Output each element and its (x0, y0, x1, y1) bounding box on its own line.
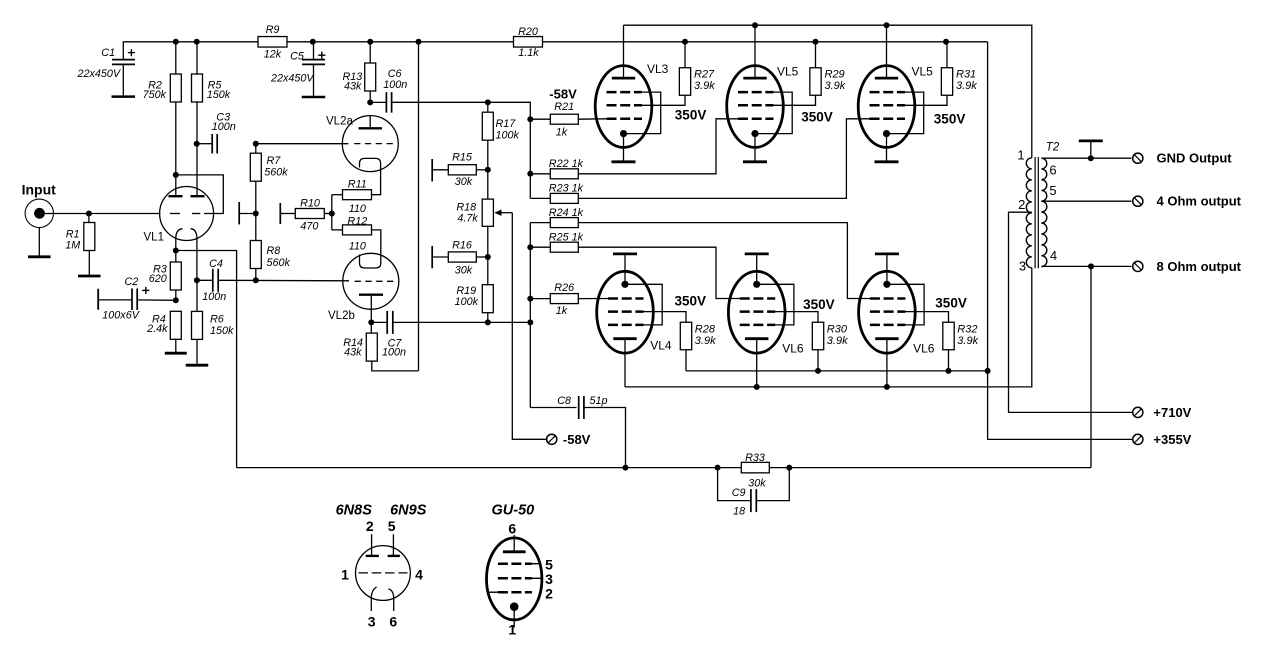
svg-text:C6: C6 (388, 68, 402, 80)
svg-text:150k: 150k (207, 89, 231, 101)
svg-text:R24 1k: R24 1k (549, 207, 584, 219)
svg-text:22x450V: 22x450V (77, 68, 122, 80)
svg-text:T2: T2 (1046, 141, 1060, 153)
svg-text:1: 1 (508, 622, 516, 638)
svg-text:22x450V: 22x450V (270, 73, 315, 85)
svg-text:VL6: VL6 (782, 342, 804, 356)
svg-text:+355V: +355V (1153, 432, 1191, 447)
svg-text:560k: 560k (267, 257, 291, 269)
svg-text:R29: R29 (825, 68, 845, 80)
svg-text:3: 3 (368, 614, 376, 630)
svg-text:4: 4 (1050, 248, 1057, 263)
svg-text:5: 5 (388, 518, 396, 534)
svg-text:R26: R26 (554, 282, 574, 294)
svg-text:3.9k: 3.9k (694, 80, 715, 92)
svg-text:R25 1k: R25 1k (549, 232, 584, 244)
svg-text:100k: 100k (496, 129, 520, 141)
svg-text:30k: 30k (455, 176, 473, 188)
svg-text:51p: 51p (590, 395, 608, 407)
svg-text:R7: R7 (267, 155, 282, 167)
svg-text:2: 2 (1018, 197, 1025, 212)
svg-text:350V: 350V (803, 297, 835, 312)
svg-text:R33: R33 (745, 452, 765, 464)
svg-text:2: 2 (545, 585, 553, 601)
svg-text:6: 6 (508, 521, 516, 537)
svg-text:6N9S: 6N9S (390, 502, 427, 518)
svg-text:620: 620 (149, 273, 167, 285)
svg-text:R18: R18 (456, 201, 476, 213)
svg-text:350V: 350V (675, 293, 707, 308)
svg-text:110: 110 (349, 241, 366, 253)
svg-text:R30: R30 (827, 324, 848, 336)
svg-text:6: 6 (389, 614, 397, 630)
svg-text:3: 3 (1019, 258, 1026, 273)
svg-text:C4: C4 (209, 258, 223, 270)
svg-text:C8: C8 (557, 395, 571, 407)
svg-text:43k: 43k (344, 81, 362, 93)
svg-text:R17: R17 (496, 118, 517, 130)
svg-text:R6: R6 (210, 314, 224, 326)
svg-text:-58V: -58V (563, 432, 591, 447)
svg-text:100n: 100n (382, 346, 406, 358)
svg-text:5: 5 (545, 556, 553, 572)
svg-text:1: 1 (1017, 148, 1024, 163)
svg-text:8 Ohm output: 8 Ohm output (1157, 259, 1242, 274)
svg-text:Input: Input (22, 182, 57, 198)
svg-text:VL1: VL1 (144, 232, 164, 244)
svg-text:6N8S: 6N8S (336, 502, 373, 518)
svg-text:VL6: VL6 (913, 342, 935, 356)
svg-text:5: 5 (1049, 183, 1056, 198)
svg-text:4: 4 (415, 567, 423, 583)
svg-text:GND Output: GND Output (1157, 151, 1233, 166)
svg-text:R28: R28 (695, 324, 716, 336)
svg-text:R23 1k: R23 1k (549, 183, 584, 195)
svg-text:4 Ohm output: 4 Ohm output (1157, 194, 1242, 209)
svg-text:-58V: -58V (549, 87, 577, 102)
svg-text:6: 6 (1049, 163, 1056, 178)
svg-text:350V: 350V (934, 112, 966, 127)
svg-text:C5: C5 (290, 51, 305, 63)
svg-text:1: 1 (341, 567, 349, 583)
svg-text:VL5: VL5 (777, 64, 799, 78)
svg-text:18: 18 (733, 506, 745, 518)
svg-text:3.9k: 3.9k (956, 80, 977, 92)
svg-text:VL5: VL5 (912, 65, 934, 79)
svg-text:R21: R21 (554, 101, 574, 113)
svg-text:C2: C2 (125, 276, 139, 288)
svg-text:R9: R9 (266, 24, 280, 36)
svg-text:12k: 12k (264, 49, 282, 61)
svg-text:3.9k: 3.9k (825, 80, 846, 92)
svg-text:R20: R20 (518, 26, 538, 38)
svg-text:470: 470 (300, 221, 318, 233)
svg-text:1k: 1k (556, 305, 568, 317)
svg-text:30k: 30k (455, 265, 473, 277)
svg-text:100x6V: 100x6V (102, 309, 140, 321)
svg-text:R31: R31 (956, 68, 976, 80)
svg-text:2: 2 (366, 518, 374, 534)
svg-text:C1: C1 (101, 47, 115, 59)
svg-text:VL2a: VL2a (326, 116, 353, 128)
svg-text:350V: 350V (675, 108, 707, 123)
svg-text:2.4k: 2.4k (146, 323, 168, 335)
svg-text:43k: 43k (344, 346, 362, 358)
svg-text:3.9k: 3.9k (827, 335, 848, 347)
svg-text:R15: R15 (452, 152, 473, 164)
svg-text:+710V: +710V (1153, 405, 1191, 420)
svg-text:110: 110 (349, 203, 366, 215)
svg-text:R32: R32 (957, 324, 977, 336)
svg-text:560k: 560k (264, 166, 288, 178)
svg-text:R12: R12 (347, 216, 367, 228)
svg-text:100n: 100n (202, 291, 226, 303)
svg-text:1k: 1k (556, 127, 568, 139)
svg-text:R22 1k: R22 1k (549, 158, 584, 170)
svg-text:350V: 350V (801, 109, 833, 124)
svg-text:VL3: VL3 (647, 62, 669, 76)
svg-text:GU-50: GU-50 (492, 502, 535, 518)
svg-text:R10: R10 (300, 198, 320, 210)
svg-text:VL4: VL4 (650, 339, 672, 353)
svg-text:150k: 150k (210, 325, 234, 337)
svg-text:350V: 350V (935, 295, 967, 310)
svg-text:C9: C9 (732, 487, 746, 499)
svg-text:100n: 100n (212, 121, 236, 133)
svg-text:4.7k: 4.7k (457, 213, 478, 225)
svg-text:1M: 1M (65, 239, 80, 251)
svg-text:100k: 100k (455, 296, 479, 308)
svg-text:R27: R27 (694, 68, 715, 80)
svg-text:R8: R8 (267, 245, 281, 257)
svg-text:1.1k: 1.1k (518, 47, 539, 59)
svg-text:R11: R11 (348, 179, 367, 191)
svg-text:VL2b: VL2b (328, 310, 355, 322)
svg-text:30k: 30k (748, 478, 766, 490)
svg-text:R16: R16 (452, 240, 472, 252)
svg-text:3.9k: 3.9k (695, 335, 716, 347)
svg-text:750k: 750k (143, 89, 167, 101)
svg-text:3.9k: 3.9k (957, 335, 978, 347)
svg-text:100n: 100n (383, 79, 407, 91)
